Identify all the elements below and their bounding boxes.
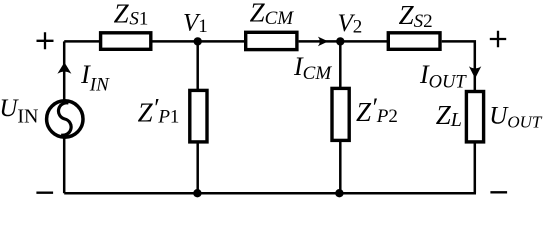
node bottom below V1 [193,189,201,197]
wire bottom rail [64,192,476,195]
wire V1 branch lower [196,142,199,193]
label IOUT [419,60,467,92]
svg-text:V1: V1 [183,10,208,37]
plus sign output [490,31,506,47]
label ZCM [250,0,295,29]
label UOUT [489,103,543,132]
minus sign input [36,192,53,194]
svg-text:ICM: ICM [293,52,332,84]
resistor ZS1 [101,33,151,50]
arrow IIN current direction [57,62,71,74]
label V1 [183,10,208,37]
svg-text:V2: V2 [338,10,363,38]
svg-text:ZS2: ZS2 [399,0,433,32]
resistor ZS2 [388,33,440,50]
svg-text:ZL: ZL [436,100,462,131]
wire from ZS1 to ZCM [153,40,246,43]
node V1 junction dot [194,37,202,45]
label ZS1 [114,0,149,30]
svg-text:ZS1: ZS1 [114,0,149,30]
wire from V2 to ZS2 [340,40,387,43]
wire left vertical above source [63,41,66,99]
arrow IOUT current direction [469,66,481,78]
resistor ZCM [246,32,297,49]
svg-text:Z′P1: Z′P1 [138,94,180,128]
svg-text:ZCM: ZCM [250,0,295,29]
label IIN [80,60,110,96]
label ICM [293,52,332,84]
node V2 junction dot [336,37,344,45]
wire left vertical below source [63,139,66,194]
plus sign input [37,32,54,49]
wire V2 branch lower [339,140,342,193]
impedance ZP1 vertical box [190,90,207,141]
load ZL vertical box [466,92,483,142]
label ZS2 [399,0,433,32]
source UIN circle [47,101,83,137]
minus sign output [490,191,507,193]
svg-text:Z′P2: Z′P2 [356,93,398,127]
node bottom below V2 [335,189,343,197]
svg-text:IIN: IIN [80,60,110,96]
wire top from + corner to ZS1 [64,40,100,43]
impedance ZP2 vertical box [332,88,349,140]
svg-text:UIN: UIN [0,95,38,128]
arrow ICM current direction [318,37,328,47]
label ZL [436,100,462,131]
label ZP2 [356,93,398,127]
wire V1 branch upper [196,41,199,90]
svg-text:UOUT: UOUT [489,103,543,132]
wire V2 branch upper [339,41,342,88]
svg-text:IOUT: IOUT [419,60,467,92]
label ZP1 [138,94,180,128]
wire from ZCM to node V2 [299,40,340,43]
label V2 [338,10,363,38]
wire from ZS2 to right corner [442,41,475,90]
label UIN [0,95,38,128]
wire right vertical below ZL [475,142,476,193]
